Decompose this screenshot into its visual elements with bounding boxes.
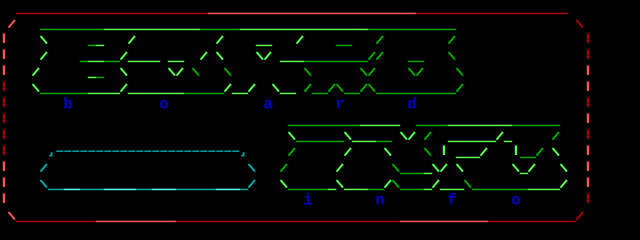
svg-text:a: a: [263, 96, 273, 114]
svg-text:i: i: [303, 192, 313, 210]
oval bottom plus logo INFO bottom plus border dashes: [3, 177, 589, 190]
logo BOARD top plus border corners: [9, 20, 584, 30]
oval top plus logo INFO row 3 plus border dashes: [3, 145, 589, 158]
svg-text:d: d: [407, 96, 417, 114]
logo BOARD row 2 plus border dashes: [3, 33, 589, 46]
logo INFO top plus border dashes: [3, 113, 589, 126]
svg-text:o: o: [159, 96, 169, 114]
border top edge: [16, 13, 568, 15]
logo BOARD bottom plus border dashes: [3, 81, 589, 94]
hint letters: [63, 96, 521, 210]
logo BOARD row 3 plus border dashes: [3, 49, 589, 62]
svg-text:f: f: [447, 192, 457, 210]
svg-text:n: n: [375, 192, 385, 210]
oval sides plus logo INFO row 4 plus border dashes: [3, 161, 589, 174]
svg-text:o: o: [511, 192, 521, 210]
logo BOARD row 4 plus border dashes: [3, 65, 589, 78]
border bottom edge: [9, 212, 584, 222]
svg-text:b: b: [63, 96, 73, 114]
hint letter row info borders: [3, 193, 589, 203]
svg-text:r: r: [335, 96, 345, 114]
hint letter row board borders: [3, 97, 589, 107]
logo INFO row 2 plus border dashes: [3, 129, 589, 142]
